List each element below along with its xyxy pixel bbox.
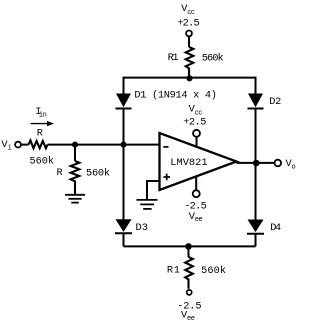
label Iin [35,106,46,120]
node junction output rail [253,160,260,167]
svg-text:LMV821: LMV821 [170,157,207,169]
svg-text:560k: 560k [202,52,224,64]
wire op-amp plus input to ground [147,181,160,200]
svg-text:cc: cc [187,9,195,17]
wire left rail lower (D3 to bottom rail) [123,233,125,246]
ground (op-amp plus input) [137,200,158,209]
wire input line to op-amp minus input [48,144,160,146]
svg-text:o: o [292,163,296,171]
wire Vcc terminal to R1 top [188,37,190,47]
wire left rail middle (D1 to D3) [123,109,125,220]
label Vi [1,139,11,152]
label Vee op-amp [189,211,203,224]
ground (below vertical R) [65,195,85,203]
terminal Vcc top [186,31,192,37]
svg-text:R1: R1 [168,52,179,64]
op-amp plus input symbol [163,174,170,181]
resistor R horizontal zigzag [29,140,48,148]
wire node to vertical R [74,145,76,161]
node junction input [72,142,78,148]
wire top rail [124,77,256,79]
svg-text:i: i [8,144,12,152]
diode D2 [248,94,264,109]
terminal Vi input [15,142,21,148]
op-amp U1 triangle [160,133,237,190]
resistor R vertical zigzag [71,161,80,195]
terminal Vee bottom [187,290,192,295]
svg-text:560k: 560k [30,156,55,168]
svg-text:ee: ee [187,315,195,323]
svg-text:+2.5: +2.5 [183,117,206,129]
op-amp minus input symbol [163,146,168,148]
svg-text:560k: 560k [86,167,110,179]
wire Vi terminal to R [21,144,28,146]
svg-text:-2.5: -2.5 [184,201,207,213]
svg-text:560k: 560k [201,265,226,277]
wire op-amp output to Vo terminal [237,162,275,164]
svg-text:D1 (1N914 x 4): D1 (1N914 x 4) [134,90,217,102]
label Vee bottom [181,310,195,324]
label Vcc top [181,3,195,17]
svg-text:D2: D2 [269,96,281,108]
diode D4 [247,220,264,234]
wire op-amp Vcc circle to top edge [196,137,198,148]
node junction top rail [186,75,192,81]
arrow Iin [31,121,55,126]
svg-text:D4: D4 [270,222,281,234]
wire op-amp bottom edge to Vee circle [195,176,197,190]
diode D1 [116,94,132,109]
svg-text:R: R [57,167,63,179]
svg-text:+2.5: +2.5 [177,18,200,30]
label Vcc op-amp [189,104,203,118]
terminal Vo output [275,160,282,167]
svg-text:in: in [39,112,47,120]
wire right rail middle (D2 to D4) [255,109,257,220]
wire right rail upper (rail to D2) [255,77,257,94]
diode D3 [115,219,132,233]
resistor R1 top zigzag [186,47,194,78]
node junction bottom rail [185,243,192,250]
wire bottom rail [124,245,256,247]
wire right rail lower (D4 to bottom rail) [255,234,257,246]
wire left rail upper (rail to D1) [123,77,125,94]
terminal op-amp Vcc [193,130,200,137]
svg-text:ee: ee [195,216,203,224]
svg-text:R: R [37,127,43,139]
resistor R1 bottom zigzag [185,257,193,289]
terminal op-amp Vee [193,190,200,197]
node junction left rail [120,142,126,148]
svg-text:D3: D3 [136,222,148,234]
wire bottom rail to R1 bottom [188,246,190,257]
svg-text:R1: R1 [167,265,180,277]
label Vo [286,158,296,171]
